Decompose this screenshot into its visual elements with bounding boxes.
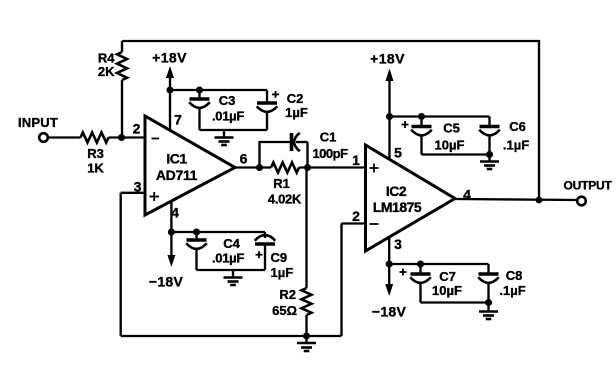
svg-text:+18V: +18V: [152, 50, 187, 66]
ground (C3/C2 box): [215, 130, 234, 145]
svg-text:1µF: 1µF: [285, 105, 308, 120]
junction node: -18V rail (IC2): [386, 260, 393, 267]
junction node: C8 bottom / ground: [485, 299, 492, 306]
wire: right vertical to IC2 pin 2: [340, 224, 342, 337]
junction node: C4 top: [193, 228, 200, 235]
capacitor C5: [402, 117, 465, 155]
svg-text:C5: C5: [443, 121, 460, 136]
junction node: +18V rail (IC1): [166, 86, 173, 93]
svg-text:10µF: 10µF: [432, 283, 462, 298]
svg-text:1µF: 1µF: [271, 265, 294, 280]
svg-text:INPUT: INPUT: [18, 115, 58, 130]
resistor R3: [81, 133, 109, 176]
svg-text:.01µF: .01µF: [212, 251, 244, 266]
capacitor C1 (parallel branch): [260, 130, 349, 168]
svg-text:2: 2: [352, 208, 360, 224]
wire: input to R3: [48, 136, 81, 138]
OUTPUT terminal: [564, 179, 613, 206]
junction node: C6 bottom / ground: [486, 151, 493, 158]
wire: C5/C6 bottom rail: [422, 153, 490, 155]
junction node: R3/R4/pin2: [118, 134, 125, 141]
capacitor C9: [255, 232, 294, 280]
wire: C4/C9 bottom rail: [197, 269, 266, 271]
ground (C4/C9 box): [224, 270, 243, 285]
resistor R4: [98, 41, 127, 139]
-18V supply arrow (IC1): [149, 232, 184, 290]
junction node: -18V rail (IC1): [168, 228, 175, 235]
svg-text:2: 2: [133, 121, 141, 137]
wire: R1 to IC2 pin 1: [299, 166, 366, 168]
svg-text:2K: 2K: [98, 64, 115, 79]
wire: C3/C2 top rail: [170, 89, 267, 91]
svg-text:−18V: −18V: [149, 274, 184, 290]
+18V supply arrow (IC1): [152, 50, 187, 91]
junction node: +18V rail (IC2): [386, 113, 393, 120]
svg-text:.01µF: .01µF: [212, 109, 244, 124]
svg-text:IC2: IC2: [386, 183, 407, 199]
capacitor C2: [257, 90, 308, 130]
svg-text:3: 3: [394, 236, 402, 252]
junction node: output/feedback: [536, 197, 543, 204]
junction node: C1/R1 left: [256, 164, 263, 171]
capacitor C3: [189, 90, 244, 130]
resistor R2: [272, 168, 311, 337]
wire: C7/C8 bottom rail: [421, 301, 489, 303]
svg-text:C3: C3: [219, 93, 236, 108]
svg-text:OUTPUT: OUTPUT: [564, 179, 613, 193]
svg-text:C6: C6: [509, 119, 526, 134]
svg-text:7: 7: [174, 112, 182, 128]
capacitor C4: [186, 232, 244, 270]
svg-text:R2: R2: [279, 287, 296, 302]
svg-text:R1: R1: [273, 176, 290, 191]
capacitor C8: [478, 264, 525, 303]
wire: pin 5 to +18V node: [388, 117, 390, 161]
wire: C3/C2 bottom rail: [200, 129, 268, 131]
op-amp IC2 LM1875: [366, 145, 456, 251]
svg-text:C7: C7: [439, 269, 456, 284]
svg-text:LM1875: LM1875: [373, 199, 422, 215]
wire: pin 6 output: [235, 166, 271, 168]
wire: C7/C8 top rail: [389, 263, 488, 265]
svg-text:C1: C1: [320, 130, 337, 145]
wire: C5/C6 top rail: [390, 115, 490, 117]
junction node: R2 bottom: [303, 332, 310, 339]
wire: top feedback rail: [122, 41, 539, 200]
resistor R1: [268, 163, 302, 207]
wire: IC1 pin 3 stub: [121, 192, 145, 194]
svg-text:6: 6: [240, 151, 248, 167]
svg-text:IC1: IC1: [166, 151, 187, 167]
junction node: C1/R1 right: [304, 164, 311, 171]
INPUT terminal: [18, 115, 58, 142]
svg-text:AD711: AD711: [156, 167, 198, 183]
wire: pin 3 to -18V node (IC2): [388, 237, 390, 264]
svg-text:65Ω: 65Ω: [272, 303, 297, 318]
svg-text:10µF: 10µF: [435, 138, 465, 153]
ground (C6): [480, 155, 499, 170]
svg-text:+18V: +18V: [370, 51, 405, 67]
svg-text:5: 5: [394, 145, 402, 161]
svg-text:.1µF: .1µF: [503, 138, 529, 153]
wire: pin 7 to +18V node: [169, 90, 171, 131]
svg-text:.1µF: .1µF: [499, 283, 525, 298]
+18V supply arrow (IC2): [370, 51, 405, 117]
capacitor C6: [479, 117, 529, 155]
ground (C8): [479, 303, 498, 320]
svg-text:4.02K: 4.02K: [268, 192, 302, 207]
wire: pin 4 to -18V node: [170, 201, 172, 232]
svg-text:100pF: 100pF: [312, 146, 348, 161]
svg-text:C4: C4: [223, 236, 240, 251]
wire: IC2 pin 2 stub: [342, 222, 366, 224]
svg-text:C8: C8: [506, 268, 523, 283]
ground (bottom rail): [297, 336, 316, 351]
svg-text:1: 1: [352, 152, 360, 168]
wire: IC2 output: [455, 199, 578, 200]
junction node: C3 top: [196, 86, 203, 93]
op-amp IC1 AD711: [145, 116, 235, 215]
capacitor C7: [400, 264, 462, 303]
svg-text:C9: C9: [271, 250, 288, 265]
wire: bottom rail: [121, 335, 342, 337]
wire: R3 to IC1 pin 2: [109, 136, 146, 138]
junction node: C7 top: [417, 260, 424, 267]
wire: C4/C9 top rail: [171, 231, 265, 233]
svg-text:C2: C2: [287, 91, 304, 106]
svg-text:−18V: −18V: [372, 304, 407, 320]
-18V supply arrow (IC2): [372, 264, 407, 320]
wire: left vertical to bottom rail: [120, 193, 122, 336]
svg-text:1K: 1K: [87, 161, 104, 176]
svg-text:R3: R3: [87, 146, 104, 161]
junction node: C5 top: [418, 113, 425, 120]
